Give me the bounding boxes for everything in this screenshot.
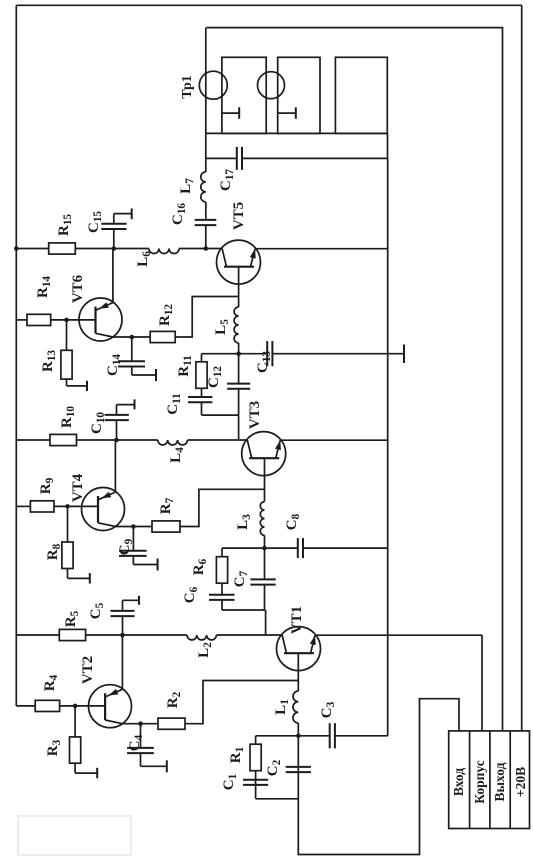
- capacitor C13 shunt crossing bus with ground bar: [239, 353, 267, 355]
- resistor R6: [216, 557, 227, 584]
- node VT4 collector tap: [114, 438, 119, 443]
- node VT4 emitter junction: [131, 524, 136, 529]
- resistor R2: [141, 723, 159, 725]
- wire R7 to VT3 base: [180, 489, 265, 526]
- capacitor C17 shunt to ground bus: [206, 157, 237, 159]
- resistor R15: [16, 248, 48, 250]
- resistor R7: [133, 526, 152, 528]
- capacitor C5 with ground: [122, 616, 124, 635]
- ground bar of C4: [166, 760, 168, 772]
- VT3 collector slant: [247, 440, 251, 458]
- wire input node row with C2: [297, 736, 299, 799]
- connector divider 3: [509, 731, 511, 829]
- ground bar of C14: [155, 369, 157, 381]
- wire L7 to transformer and output corner: [205, 28, 207, 172]
- ground bar of R3: [96, 768, 98, 778]
- VT2 emitter slant and lead: [105, 720, 140, 724]
- capacitor C16: [195, 224, 217, 226]
- VT5 base bar: [224, 266, 254, 268]
- wire L5 to VT5 base: [238, 267, 240, 307]
- ground bar of R13: [86, 381, 88, 391]
- VT1 base bar: [284, 652, 314, 654]
- node VT2 emitter junction: [138, 721, 143, 726]
- capacitor C15 with ground: [113, 229, 115, 249]
- node VT2 collector tap: [120, 633, 125, 638]
- node VT2 base junction: [73, 704, 78, 709]
- inductor L4: [117, 439, 158, 441]
- node output junction on VT5 column: [204, 246, 209, 251]
- wire VT1 emitter to ground bus and Korpus row: [315, 634, 482, 636]
- wire loop left leg: [222, 609, 266, 611]
- wire R6 to loop right leg: [221, 548, 223, 557]
- resistor R8 with ground: [67, 506, 69, 542]
- wire VT6 base line from +20V rail: [16, 319, 27, 321]
- wire R4 to base junction: [60, 705, 106, 707]
- svg-text:VT3: VT3: [247, 401, 263, 429]
- svg-text:VT5: VT5: [231, 202, 247, 230]
- svg-text:Тр1: Тр1: [180, 75, 195, 99]
- VT1 collector slant: [282, 635, 286, 653]
- node +20V rail junction at stage-3 column: [14, 246, 19, 251]
- wire ground bus: [387, 158, 389, 735]
- VT4 emitter slant and lead: [98, 523, 133, 527]
- resistor R13 with ground: [66, 320, 68, 350]
- transistor VT4: [82, 488, 125, 531]
- resistor R9: [30, 501, 54, 512]
- svg-text:VT2: VT2: [80, 656, 96, 684]
- VT1 emitter arrow: [310, 635, 316, 645]
- wire output row start: [205, 225, 207, 248]
- svg-text:Выход: Выход: [492, 762, 507, 801]
- wire +20V right edge: [16, 4, 521, 6]
- transformer Tp1 core tube circle 1: [199, 71, 227, 99]
- resistor R1: [250, 744, 261, 771]
- VT6 emitter slant and lead: [96, 333, 132, 337]
- decorative faint box: [18, 816, 131, 855]
- wire Korpus (case) line from connector to ground column: [481, 635, 483, 731]
- VT4 collector slant and lead: [98, 440, 115, 500]
- transformer Tp1 core tube circle 2: [258, 72, 285, 99]
- wire loop left leg stage2: [202, 414, 239, 416]
- VT1 emitter slant: [311, 635, 316, 653]
- wire transformer bottom link to ground bus: [387, 133, 389, 158]
- wire R14 to base bar: [51, 319, 96, 321]
- resistor R4: [35, 700, 59, 711]
- capacitor C7: [264, 585, 266, 610]
- VT3 base bar: [249, 457, 279, 459]
- inductor L6: [114, 248, 149, 250]
- node VT6 collector tap: [112, 246, 117, 251]
- inductor L5: [238, 343, 240, 354]
- wire R1C1 branch: [255, 736, 257, 799]
- wire R1C1 branch right leg: [256, 735, 299, 737]
- transformer Tp1 winding stub 2: [278, 112, 296, 114]
- VT4 arrow: [101, 492, 111, 499]
- svg-text:Корпус: Корпус: [472, 760, 487, 803]
- resistor R12: [132, 336, 150, 338]
- wire VT5 emitter to ground bus: [255, 248, 388, 250]
- capacitor C6: [221, 600, 223, 610]
- capacitor C4 with ground: [140, 724, 142, 748]
- transistor VT1: [277, 627, 321, 671]
- transformer Tp1 winding rect 2: [278, 57, 320, 133]
- capacitor C2: [286, 771, 311, 773]
- transistor VT5: [217, 240, 261, 284]
- wire +20V bottom rail to connector pin +20B: [521, 5, 523, 731]
- transformer Tp1 winding rect 3: [335, 57, 387, 133]
- VT6 base bar: [94, 307, 96, 334]
- inductor L2: [123, 634, 188, 636]
- svg-text:VT6: VT6: [70, 274, 86, 303]
- transformer Tp1 left edge line: [206, 132, 387, 134]
- wire output line to connector pin Vyhod: [206, 28, 502, 731]
- VT5 emitter arrow: [250, 249, 256, 259]
- wire loop right leg: [222, 547, 265, 549]
- wire loop right leg stage2: [202, 353, 239, 355]
- wire +20V top rail: [15, 5, 17, 706]
- ground bar of C15: [131, 208, 133, 219]
- resistor R3 with ground: [74, 706, 76, 737]
- wire VT3 emitter to ground bus: [280, 439, 387, 441]
- VT4 base bar: [97, 496, 99, 523]
- VT2 base bar: [104, 693, 106, 720]
- node VT4 base junction: [65, 504, 70, 509]
- node VT6 emitter junction: [130, 335, 135, 340]
- resistor R11: [196, 362, 207, 389]
- wire R9 to base bar: [54, 505, 98, 507]
- VT5 emitter slant: [251, 249, 256, 267]
- capacitor C14 with ground: [131, 337, 133, 361]
- connector divider 2: [489, 731, 491, 829]
- node VT6 base junction: [64, 318, 69, 323]
- transistor VT2: [89, 685, 132, 728]
- svg-text:+20В: +20В: [513, 767, 528, 797]
- inductor L1: [297, 723, 299, 736]
- wire VT4 base line from +20V rail: [16, 505, 30, 507]
- ground bar of C13 below bus: [403, 345, 405, 364]
- wire tap from VT3 collector column: [238, 415, 240, 440]
- VT3 emitter arrow: [275, 440, 281, 450]
- inductor L7: [201, 172, 206, 202]
- wire R12 to VT5 base: [175, 297, 238, 338]
- connector box: [449, 731, 530, 829]
- VT6 arrow: [99, 302, 109, 309]
- capacitor C12: [238, 389, 240, 415]
- svg-text:VT4: VT4: [70, 473, 86, 502]
- VT2 collector slant and lead: [105, 635, 122, 697]
- transistor VT6: [79, 298, 122, 341]
- node junction J5 below L5: [236, 351, 241, 356]
- ground bar of C9: [157, 559, 159, 571]
- wire R2 to VT1 base: [185, 681, 298, 724]
- VT2 arrow: [109, 689, 119, 696]
- ground bar of C10: [134, 399, 136, 409]
- wire VT2 base line with R4 from +20V rail: [16, 705, 35, 707]
- wire input feed from connector pin Vhod: [298, 699, 459, 855]
- resistor R10: [16, 439, 50, 441]
- svg-text:Вход: Вход: [451, 768, 466, 796]
- capacitor C11: [201, 402, 203, 415]
- node junction J3 below L3: [262, 546, 267, 551]
- ground bar of C5: [138, 596, 140, 605]
- capacitor C9 with ground: [132, 527, 134, 551]
- capacitor C10 with ground: [116, 420, 118, 440]
- wire R1C1 branch left leg: [256, 798, 299, 800]
- transformer Tp1 winding rect 1: [222, 57, 266, 133]
- node input junction J1: [296, 734, 301, 739]
- VT5 collector slant: [222, 249, 226, 267]
- wire tap from VT1 collector column: [265, 610, 267, 635]
- transformer Tp1 winding stub 1: [222, 112, 239, 114]
- wire L1 to VT1 base: [297, 653, 299, 691]
- connector divider 1: [469, 731, 471, 829]
- transistor VT3: [242, 432, 286, 476]
- inductor L3: [260, 502, 264, 536]
- svg-text:VT1: VT1: [289, 606, 305, 634]
- capacitor C3 shunt to ground bus: [298, 735, 329, 737]
- resistor R14: [27, 314, 51, 325]
- VT3 emitter slant: [276, 440, 281, 458]
- wire R11 to loop right leg: [201, 354, 203, 362]
- capacitor C8 shunt to ground bus: [265, 547, 298, 549]
- VT6 collector slant and lead: [96, 249, 113, 311]
- ground bar of R8: [89, 573, 91, 584]
- resistor R5: [16, 634, 59, 636]
- capacitor C1: [243, 784, 268, 786]
